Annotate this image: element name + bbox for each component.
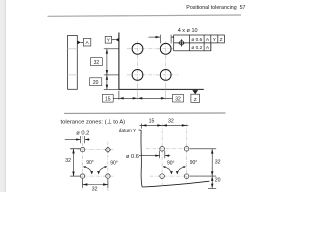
TED box 20 (vertical) — [90, 78, 102, 86]
zone circle top-left (right diagram) — [160, 147, 165, 152]
svg-text:32: 32 — [168, 119, 174, 125]
zone circle bottom-left — [80, 174, 84, 178]
dia 0.6 zone dimension — [139, 151, 170, 159]
svg-text:ø 0.6: ø 0.6 — [191, 37, 202, 43]
dia 10 dimension extension lines — [149, 35, 174, 44]
zone circle bottom-right (right diagram) — [184, 174, 189, 179]
top dimension chain 15 / 32 — [140, 124, 189, 129]
hole top-left — [132, 43, 143, 54]
datum A symbol — [78, 38, 91, 46]
side view plate — [68, 36, 78, 90]
zone circle bottom-left (right diagram) — [160, 174, 165, 179]
hole top-right — [160, 43, 171, 54]
left vertical dimension chain — [104, 49, 119, 90]
workpiece bottom edge (wavy) — [142, 181, 209, 187]
right dimension chain 32 / 20 — [190, 149, 216, 189]
svg-text:Positional tolerancing 57: Positional tolerancing 57 — [186, 5, 245, 11]
left 32 dimension — [70, 149, 80, 177]
datum Y tick — [139, 129, 142, 132]
svg-text:4 x ø 10: 4 x ø 10 — [178, 28, 198, 34]
centerlines right diagram — [146, 124, 190, 187]
bottom 32 dimension — [83, 179, 108, 188]
centerlines — [70, 136, 114, 192]
TED box 15 (horizontal) — [102, 94, 113, 102]
svg-text:ø 0.2: ø 0.2 — [191, 45, 202, 51]
workpiece left edge (wavy) — [141, 130, 142, 187]
svg-text:32: 32 — [175, 96, 181, 102]
svg-text:32: 32 — [65, 158, 71, 164]
svg-text:datum Y: datum Y — [119, 128, 137, 133]
svg-text:tolerance zones: (⊥ to A): tolerance zones: (⊥ to A) — [61, 118, 126, 125]
datum Y symbol — [105, 36, 119, 43]
bottom dimension chain — [113, 91, 172, 100]
feature control frame — [174, 35, 225, 51]
angle arc left (right diagram) — [163, 167, 171, 174]
zone circle bottom-right — [106, 174, 110, 178]
zone circle top-right (right diagram) — [184, 147, 189, 152]
theoretical position diamond top-right — [105, 147, 110, 152]
page edge shading — [0, 0, 5, 192]
svg-text:20: 20 — [215, 177, 221, 183]
svg-text:ø 0.2: ø 0.2 — [76, 130, 89, 136]
angle arc left — [84, 167, 92, 174]
svg-text:32: 32 — [92, 186, 98, 192]
svg-text:Z: Z — [220, 37, 223, 43]
angle arc right — [99, 167, 107, 174]
header rule — [48, 15, 242, 16]
angle arc right (right diagram) — [177, 167, 185, 174]
datum Z symbol — [191, 90, 200, 103]
position symbol — [178, 39, 185, 46]
dia 10 dimension arrows — [156, 36, 161, 38]
svg-text:15: 15 — [105, 96, 111, 102]
TED box 32 (horizontal) — [173, 94, 184, 102]
dia 0.2 zone dimension — [65, 136, 90, 143]
svg-text:32: 32 — [215, 159, 221, 165]
hole centerlines — [127, 41, 179, 84]
svg-text:32: 32 — [94, 60, 100, 66]
hole bottom-left — [132, 70, 143, 81]
hole bottom-right — [160, 70, 171, 81]
svg-text:90°: 90° — [190, 160, 198, 166]
svg-text:90°: 90° — [110, 160, 118, 166]
front view plate outline (left + bottom edge) — [119, 33, 204, 90]
zone circle top-left — [80, 148, 84, 152]
TED box 32 (vertical) — [91, 58, 103, 66]
svg-text:90°: 90° — [167, 160, 175, 166]
hole centerline extensions below plate — [138, 83, 166, 99]
svg-text:ø 0.6: ø 0.6 — [126, 154, 139, 160]
svg-text:Z: Z — [194, 97, 197, 103]
svg-text:90°: 90° — [86, 160, 94, 166]
svg-text:15: 15 — [149, 119, 155, 125]
svg-text:20: 20 — [93, 80, 99, 86]
side view hole centerlines — [68, 49, 78, 75]
